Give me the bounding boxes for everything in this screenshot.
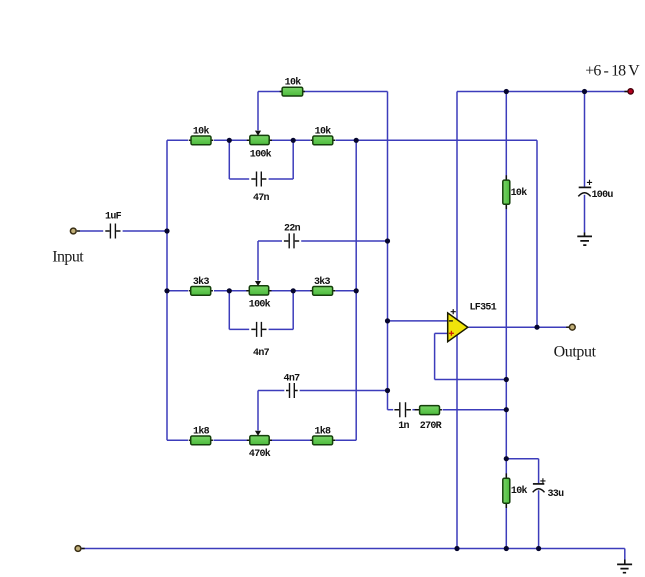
- svg-text:1k8: 1k8: [314, 425, 331, 437]
- junction node (mid row / input bus): [164, 288, 169, 293]
- wire bass band row right: [336, 439, 357, 441]
- svg-text:22n: 22n: [284, 224, 301, 235]
- wire input bus x167: [166, 140, 168, 440]
- wire treble wiper drop: [257, 92, 259, 131]
- junction node (treble pot right): [291, 138, 296, 143]
- svg-text:470k: 470k: [249, 448, 271, 460]
- wire 1uF to input bus: [123, 230, 167, 232]
- wire output feedback drop x537: [536, 140, 538, 327]
- junction node (22n / VE bus): [385, 238, 390, 243]
- junction node (bottom rail / 33u): [536, 546, 541, 551]
- wire 47n loop bottom left: [229, 178, 249, 180]
- wire 33u branch down to cap: [538, 459, 540, 484]
- wire bass band row mid1: [214, 439, 248, 441]
- wire 100u to ground: [584, 195, 586, 233]
- wire feedback row y91.5: [258, 91, 388, 93]
- svg-text:1uF: 1uF: [105, 212, 122, 223]
- wire mid band row mid1: [214, 290, 247, 292]
- wire 4n7 loop left: [228, 291, 230, 330]
- wire bottom rail: [81, 548, 625, 550]
- wire top band row left: [167, 139, 188, 141]
- wire non-inverting row to right bus: [435, 379, 507, 381]
- terminal +V supply: [624, 89, 633, 94]
- junction node (rail / 100u): [582, 89, 587, 94]
- ground (bottom right): [617, 560, 632, 573]
- svg-text:100u: 100u: [592, 190, 614, 201]
- junction node (33u branch / right bus): [504, 456, 509, 461]
- resistor 3k3 (mid band left): [189, 276, 213, 295]
- wire top band row right to output drop: [336, 139, 538, 141]
- wire mid band row left: [167, 290, 188, 292]
- resistor 10k (upper right, vertical): [503, 175, 527, 209]
- svg-text:10k: 10k: [511, 485, 528, 497]
- wire mid band row mid2: [272, 290, 311, 292]
- svg-text:100k: 100k: [249, 298, 271, 310]
- junction node (treble pot left): [227, 138, 232, 143]
- wire bottom-right ground drop: [624, 549, 626, 560]
- wire 4n7 loop bottom right: [269, 328, 294, 330]
- terminal Output: [566, 324, 575, 330]
- junction node (270R / right bus): [504, 407, 509, 412]
- wire 33u branch horizontal: [506, 458, 538, 460]
- wire op-amp power bus x457 (rail to bottom rail): [456, 92, 458, 549]
- svg-text:Output: Output: [554, 343, 597, 360]
- resistor 1k8 (bass band right): [310, 425, 335, 444]
- wire 47n loop bottom right: [269, 178, 294, 180]
- junction node (bass 4n7 / VE bus): [385, 388, 390, 393]
- junction node (output / feedback): [534, 325, 539, 330]
- svg-text:4n7: 4n7: [284, 373, 301, 384]
- wire 4n7 loop right: [292, 291, 294, 330]
- capacitor 4n7 (mid loop): [251, 322, 269, 359]
- capacitor 1uF (input): [105, 212, 122, 239]
- junction node (non-inv / right bus): [504, 377, 509, 382]
- svg-text:+6 - 18 V: +6 - 18 V: [585, 63, 640, 80]
- capacitor 47n: [251, 172, 269, 204]
- junction node (inverting input): [385, 318, 390, 323]
- svg-text:10k: 10k: [285, 76, 302, 88]
- wire top band row mid1: [214, 139, 247, 141]
- svg-text:4n7: 4n7: [253, 348, 270, 359]
- wire 22n row right: [301, 240, 387, 242]
- svg-text:3k3: 3k3: [314, 276, 331, 288]
- capacitor 22n: [284, 224, 301, 249]
- wire non-inverting drop x434.6: [434, 333, 436, 379]
- junction node (mid row / band bus): [354, 288, 359, 293]
- wire 4n7 loop bottom left: [229, 328, 249, 330]
- resistor 10k (feedback, top): [280, 76, 305, 96]
- resistor 1k8 (bass band left): [189, 425, 213, 444]
- wire 47n loop right: [292, 140, 294, 179]
- wire mid wiper drop: [257, 241, 259, 281]
- wire band-output bus x356: [355, 140, 357, 440]
- terminal bottom-left (input return): [75, 546, 85, 552]
- potentiometer 470k (bass): [247, 431, 272, 445]
- svg-text:3k3: 3k3: [193, 276, 210, 288]
- wire 33u cap to bottom rail: [538, 490, 540, 548]
- capacitor 33u (electrolytic): [533, 478, 564, 500]
- svg-text:Input: Input: [52, 248, 84, 265]
- junction node (bottom rail / x457): [454, 546, 459, 551]
- wire bass 4n7 row right: [300, 390, 388, 392]
- resistor 10k (treble band left): [189, 126, 214, 145]
- op-amp U1 LF351: [448, 309, 468, 342]
- wire op-amp output row: [469, 326, 567, 328]
- wire bass wiper drop: [257, 391, 259, 431]
- svg-text:LF351: LF351: [470, 302, 497, 313]
- svg-text:270R: 270R: [420, 421, 442, 432]
- junction node (mid pot right): [291, 288, 296, 293]
- wire bass band row mid2: [272, 439, 311, 441]
- wire 270R to right bus: [443, 409, 507, 411]
- resistor 10k (treble band right): [310, 126, 335, 145]
- wire top supply rail: [457, 91, 627, 93]
- capacitor 4n7 (bass): [284, 373, 301, 398]
- wire 1n to 270R: [412, 409, 417, 411]
- wire bass band row left: [167, 439, 188, 441]
- junction node (mid pot left): [227, 288, 232, 293]
- svg-text:100k: 100k: [250, 149, 272, 161]
- wire 1n row elbow: [388, 409, 394, 411]
- svg-text:10k: 10k: [193, 126, 210, 138]
- junction node (treble row / band bus): [354, 138, 359, 143]
- junction node (bottom rail / right bus): [504, 546, 509, 551]
- potentiometer 100k (treble): [247, 131, 272, 145]
- potentiometer 100k (mid): [246, 281, 271, 295]
- wire non-inverting input stub: [435, 332, 447, 334]
- svg-text:1n: 1n: [398, 421, 409, 432]
- svg-text:47n: 47n: [253, 193, 270, 204]
- resistor 10k (lower right, vertical): [503, 473, 528, 508]
- wire virtual-earth bus x387.5: [387, 92, 389, 410]
- wire right bus x506 (rail to bottom rail): [505, 92, 507, 549]
- wire input terminal to 1uF: [80, 230, 103, 232]
- wire 47n loop left: [228, 140, 230, 179]
- wire top band row mid2: [272, 139, 310, 141]
- ground (supply decoupling): [577, 233, 592, 246]
- wire bass 4n7 row left: [258, 390, 284, 392]
- capacitor 100u (electrolytic): [578, 180, 613, 201]
- wire 22n row left: [258, 240, 282, 242]
- junction node (rail / x506): [504, 89, 509, 94]
- terminal Input: [70, 228, 80, 234]
- svg-text:33u: 33u: [548, 489, 565, 500]
- junction node (input / input bus): [164, 228, 169, 233]
- svg-text:10k: 10k: [511, 187, 528, 199]
- wire inverting input row: [388, 320, 448, 322]
- resistor 270R: [415, 406, 442, 433]
- resistor 3k3 (mid band right): [310, 276, 335, 295]
- wire 100u supply drop x584.5: [584, 92, 586, 187]
- svg-text:10k: 10k: [315, 126, 332, 138]
- svg-text:1k8: 1k8: [193, 425, 210, 437]
- wire mid band row right: [336, 290, 357, 292]
- capacitor 1n: [394, 402, 411, 432]
